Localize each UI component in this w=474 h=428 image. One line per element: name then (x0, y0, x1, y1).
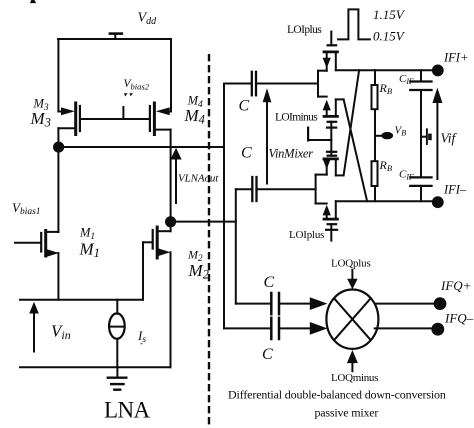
svg-text:IFQ–: IFQ– (444, 311, 474, 326)
svg-text:C: C (241, 145, 252, 162)
svg-text:passive mixer: passive mixer (315, 406, 379, 420)
svg-text:IFQ+: IFQ+ (440, 278, 471, 293)
svg-text:C: C (239, 98, 250, 115)
svg-text:Differential double-balanced d: Differential double-balanced down-conver… (228, 388, 446, 402)
svg-text:C: C (264, 274, 275, 291)
svg-text:IFI–: IFI– (443, 183, 467, 197)
svg-text:LOQplus: LOQplus (331, 258, 371, 270)
svg-text:VinMixer: VinMixer (269, 147, 314, 161)
svg-text:LOQminus: LOQminus (331, 372, 378, 384)
svg-text:VLNAout: VLNAout (178, 173, 219, 185)
svg-text:Vif: Vif (441, 131, 458, 146)
svg-text:LOIplus: LOIplus (287, 24, 322, 36)
svg-text:LOIminus: LOIminus (275, 112, 318, 124)
svg-text:LNA: LNA (104, 398, 150, 423)
svg-text:LOIplus: LOIplus (289, 229, 324, 241)
svg-text:-: - (140, 338, 143, 348)
svg-text:C: C (262, 346, 273, 363)
svg-text:IFI+: IFI+ (443, 51, 468, 65)
svg-text:0.15V: 0.15V (373, 29, 406, 44)
svg-text:1.15V: 1.15V (373, 7, 406, 22)
